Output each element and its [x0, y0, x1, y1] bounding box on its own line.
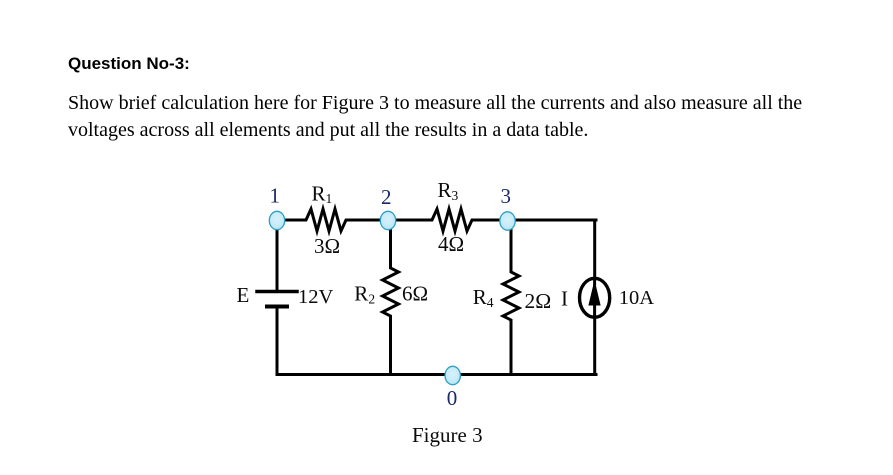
- svg-text:3: 3: [501, 184, 512, 208]
- svg-text:6Ω: 6Ω: [402, 281, 428, 305]
- svg-text:2Ω: 2Ω: [525, 289, 552, 313]
- svg-text:3Ω: 3Ω: [314, 234, 340, 258]
- svg-text:2: 2: [381, 185, 392, 209]
- svg-text:R3: R3: [438, 178, 459, 203]
- svg-text:E: E: [237, 283, 250, 307]
- svg-text:I: I: [561, 286, 568, 310]
- svg-text:12V: 12V: [298, 286, 334, 308]
- svg-text:4Ω: 4Ω: [438, 232, 464, 256]
- svg-text:1: 1: [270, 184, 281, 208]
- svg-text:0: 0: [447, 386, 458, 410]
- svg-text:Figure 3: Figure 3: [412, 423, 483, 447]
- svg-text:10A: 10A: [619, 287, 655, 309]
- svg-text:R1: R1: [312, 181, 333, 206]
- svg-text:R2: R2: [354, 281, 375, 306]
- svg-text:R4: R4: [473, 285, 494, 310]
